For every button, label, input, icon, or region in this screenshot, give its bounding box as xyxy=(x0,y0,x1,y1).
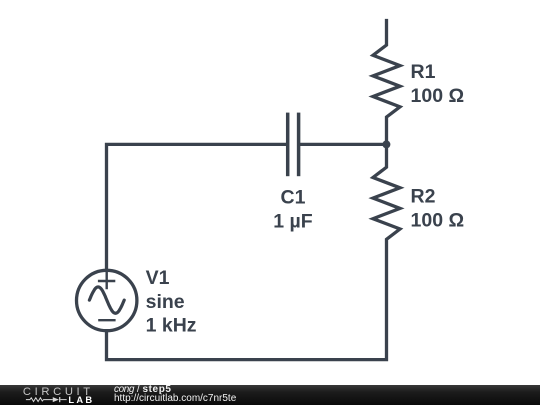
svg-text:100 Ω: 100 Ω xyxy=(411,85,465,107)
svg-text:1 kHz: 1 kHz xyxy=(146,315,197,337)
svg-text:R2: R2 xyxy=(411,186,436,208)
svg-text:100 Ω: 100 Ω xyxy=(411,209,465,231)
svg-text:1 µF: 1 µF xyxy=(273,210,312,232)
svg-text:sine: sine xyxy=(146,291,185,313)
svg-text:V1: V1 xyxy=(146,267,170,289)
svg-text:LAB: LAB xyxy=(68,395,94,404)
svg-text:C1: C1 xyxy=(281,187,306,209)
svg-text:R1: R1 xyxy=(411,61,436,83)
